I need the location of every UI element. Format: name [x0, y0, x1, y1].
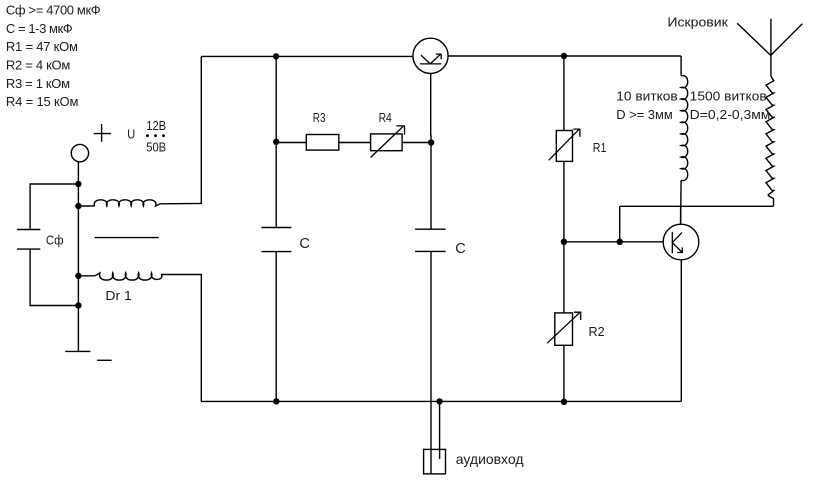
- svg-text:12В: 12В: [146, 118, 166, 133]
- svg-text:Сф: Сф: [46, 233, 64, 248]
- svg-text:R2: R2: [589, 324, 605, 339]
- svg-text:D >= 3мм: D >= 3мм: [616, 107, 672, 122]
- svg-text:R1 = 47 кОм: R1 = 47 кОм: [6, 39, 78, 54]
- svg-text:D=0,2-0,3мм: D=0,2-0,3мм: [690, 107, 771, 122]
- svg-text:C: C: [299, 236, 309, 252]
- svg-text:R2 = 4 кОм: R2 = 4 кОм: [6, 58, 70, 73]
- svg-text:R1: R1: [593, 140, 607, 155]
- svg-text:50В: 50В: [146, 139, 166, 154]
- svg-text:Сф >= 4700 мкФ: Сф >= 4700 мкФ: [6, 3, 101, 18]
- svg-text:C: C: [455, 241, 465, 257]
- svg-text:10 витков: 10 витков: [616, 89, 677, 104]
- svg-text:R3: R3: [313, 110, 326, 125]
- svg-text:R4: R4: [379, 110, 392, 125]
- svg-text:1500 витков: 1500 витков: [690, 89, 767, 104]
- svg-text:U: U: [127, 127, 135, 142]
- svg-text:Dr 1: Dr 1: [105, 288, 131, 303]
- svg-text:Искровик: Искровик: [667, 15, 728, 30]
- svg-text:R4 = 15 кОм: R4 = 15 кОм: [6, 94, 79, 109]
- svg-text:C = 1-3 мкФ: C = 1-3 мкФ: [6, 21, 73, 36]
- svg-text:аудиовход: аудиовход: [456, 451, 524, 467]
- svg-text:R3 = 1 кОм: R3 = 1 кОм: [6, 76, 70, 91]
